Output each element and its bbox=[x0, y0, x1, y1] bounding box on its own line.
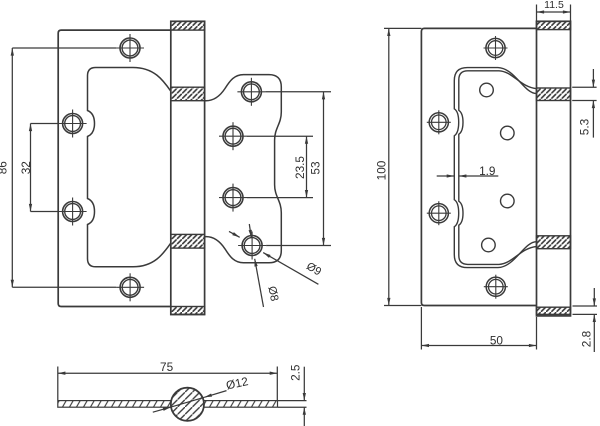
dimension 75 bbox=[58, 367, 277, 401]
dimension 11.5 bbox=[537, 5, 571, 22]
hole A4 left leaf bottom bbox=[116, 273, 144, 301]
dimension 1.9 bbox=[437, 175, 499, 177]
svg-text:75: 75 bbox=[160, 360, 174, 374]
plain hole D3 bbox=[501, 194, 515, 208]
svg-text:5.3: 5.3 bbox=[577, 118, 591, 135]
leader diameter 12 bbox=[153, 391, 227, 413]
barrel hatch band top bbox=[537, 21, 571, 29]
dimple inner contour bbox=[459, 71, 537, 265]
svg-text:2.5: 2.5 bbox=[288, 364, 302, 381]
leader diameter 9 bbox=[229, 231, 318, 284]
svg-text:50: 50 bbox=[490, 333, 504, 347]
hole C1 crosshair top bbox=[484, 36, 508, 60]
dimension 53 bbox=[265, 92, 331, 246]
dimension 32 bbox=[31, 124, 59, 212]
dimple outer contour bbox=[454, 68, 536, 268]
barrel hatch band lower middle bbox=[537, 236, 571, 249]
barrel hatch band bottom bbox=[537, 307, 571, 314]
dimension 50 bbox=[421, 307, 536, 350]
hole A3 left leaf mid-lower bbox=[59, 198, 87, 226]
hole A2 left leaf mid-upper bbox=[59, 110, 87, 138]
hole C2 crosshair left upper bbox=[427, 110, 451, 134]
svg-text:23.5: 23.5 bbox=[293, 156, 307, 179]
leader diameter 8 bbox=[249, 224, 263, 307]
svg-text:53: 53 bbox=[308, 161, 322, 175]
dimension 5.3 bbox=[572, 69, 596, 138]
plain hole D2 bbox=[501, 126, 515, 140]
barrel hatch band upper middle bbox=[171, 87, 205, 101]
svg-text:11.5: 11.5 bbox=[544, 0, 564, 11]
svg-text:Ø9: Ø9 bbox=[304, 260, 323, 278]
dimension 2.5 bbox=[278, 367, 307, 426]
plain hole D4 bbox=[482, 238, 496, 252]
barrel column bbox=[537, 21, 571, 316]
leaf bar section bbox=[58, 401, 278, 408]
knuckle circle section bbox=[171, 388, 204, 421]
barrel hatch band lower middle bbox=[171, 234, 205, 248]
left leaf outline bbox=[58, 30, 171, 306]
svg-text:2.8: 2.8 bbox=[579, 330, 593, 347]
hole B2 right leaf mid-upper bbox=[219, 122, 247, 150]
svg-text:Ø12: Ø12 bbox=[225, 374, 250, 392]
hole B1 right leaf top bbox=[237, 78, 265, 106]
right leaf contour bbox=[205, 75, 282, 263]
dimension 100 bbox=[384, 28, 421, 305]
hole B3 right leaf mid-lower bbox=[219, 184, 247, 212]
barrel hatch band upper middle bbox=[537, 88, 571, 101]
dimension 23.5 bbox=[247, 136, 313, 197]
dimension 2.8 bbox=[573, 288, 598, 352]
hole A1 left leaf top bbox=[116, 34, 144, 62]
leaf outline bbox=[421, 28, 536, 305]
left leaf pocket contour bbox=[88, 68, 171, 267]
barrel hatch band top bbox=[171, 21, 205, 30]
svg-text:32: 32 bbox=[19, 161, 33, 174]
hole C3 crosshair left lower bbox=[427, 201, 451, 225]
hole C4 crosshair bottom bbox=[484, 275, 508, 299]
dimension 86 bbox=[12, 48, 116, 287]
svg-text:86: 86 bbox=[0, 161, 10, 175]
svg-text:1.9: 1.9 bbox=[479, 164, 495, 178]
hole B4 right leaf bottom bbox=[238, 232, 266, 260]
svg-text:100: 100 bbox=[374, 160, 388, 180]
barrel hatch band bottom bbox=[171, 307, 205, 315]
plain hole D1 bbox=[480, 83, 494, 97]
hinge barrel column bbox=[171, 21, 205, 314]
svg-text:Ø8: Ø8 bbox=[265, 285, 280, 302]
